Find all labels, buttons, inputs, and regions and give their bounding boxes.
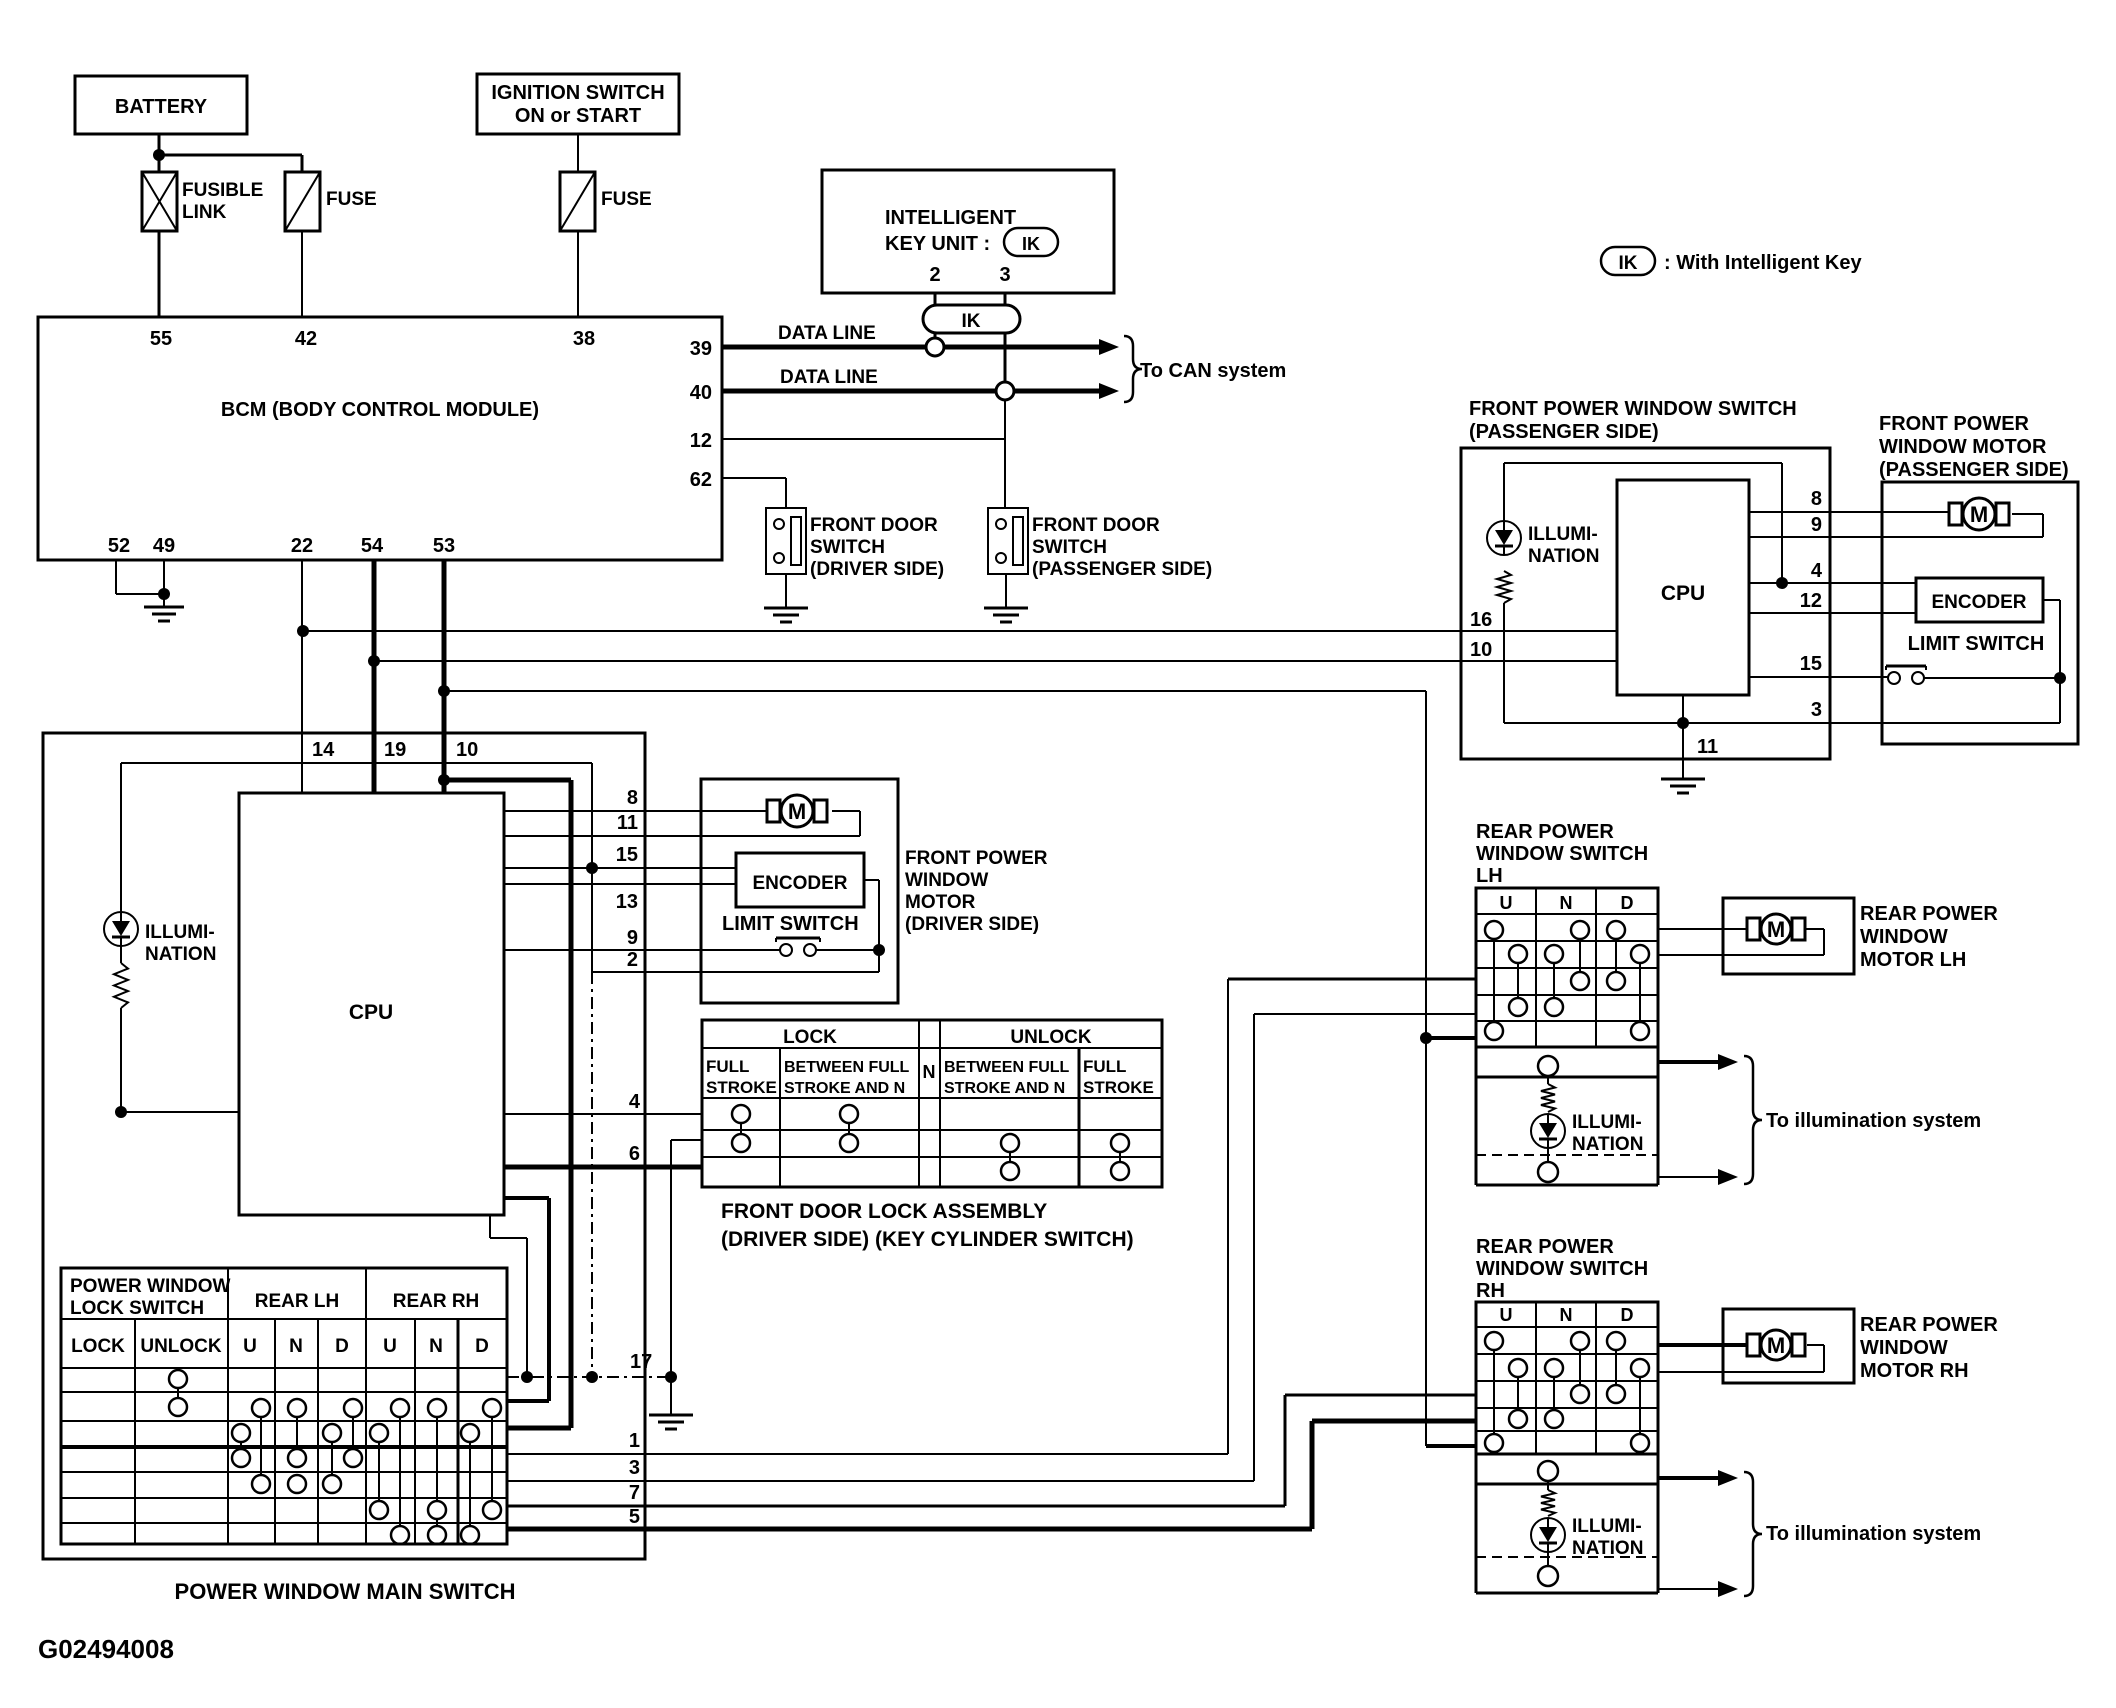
fuse F1 [285,172,377,231]
svg-text:1: 1 [629,1430,640,1452]
rear power window switch LH label [1476,821,1648,887]
rear RH contact U b [1509,1359,1527,1428]
main switch contact N RH c [428,1526,446,1544]
wire pin10 to CPU [442,733,447,793]
svg-text:ILLUMI-: ILLUMI- [1572,1112,1642,1133]
front power window motor driver side label [905,848,1048,935]
main switch contact U RH b [370,1424,388,1519]
svg-text:4: 4 [629,1091,641,1113]
svg-text:(PASSENGER SIDE): (PASSENGER SIDE) [1032,559,1212,580]
svg-text:8: 8 [1811,488,1822,510]
rear RH contact D b [1631,1359,1649,1452]
main switch contact N RH link [436,1519,438,1526]
svg-text:BETWEEN FULL: BETWEEN FULL [784,1059,910,1076]
wire x592 vertical [591,763,593,1377]
wire pin2 to data line [934,333,937,338]
cpu main switch [239,793,504,1215]
wire to illumination system RH b [1658,1581,1738,1597]
legend IK with intelligent key [1601,247,1862,275]
rear power window motor LH box [1723,898,1854,974]
main switch contact D LH b [323,1424,341,1493]
wire 53 line to rear switches [444,691,1476,1446]
svg-text:FRONT POWER WINDOW SWITCH: FRONT POWER WINDOW SWITCH [1469,398,1797,420]
wire 8 [504,810,767,812]
svg-text:42: 42 [295,328,317,350]
svg-text:NATION: NATION [1528,546,1599,567]
ground passenger switch [1661,779,1705,793]
wire 3 [507,1014,1476,1481]
node 40 circle [996,382,1014,400]
svg-text:9: 9 [1811,514,1822,536]
node 17 c [665,1371,677,1383]
wire rear LH motor feed 1 [1658,928,1747,930]
ground net 17 [649,1415,693,1429]
illumination LED passenger [1487,521,1599,567]
svg-text:MOTOR RH: MOTOR RH [1860,1360,1969,1382]
wire illumination top [121,763,592,912]
key cylinder contacts unlock full stroke [1111,1134,1129,1180]
svg-text:16: 16 [1470,609,1492,631]
wire limit switch to node [816,949,879,951]
main switch contact U LH [252,1399,270,1493]
svg-text:WINDOW: WINDOW [1860,1337,1948,1359]
rear power window switch RH table [1476,1302,1658,1454]
wire battery stem [158,134,161,172]
node limit switch passenger [2054,672,2066,684]
svg-text:N: N [1560,893,1573,913]
node 4 branch [1776,577,1788,589]
motor M rear LH [1747,914,1805,944]
svg-text:19: 19 [384,739,406,761]
svg-text:LIMIT SWITCH: LIMIT SWITCH [1908,633,2045,655]
limit switch driver [722,913,859,956]
svg-text:12: 12 [690,430,712,452]
svg-text:MOTOR LH: MOTOR LH [1860,949,1966,971]
encoder driver [736,853,864,907]
node rear LH feed [1420,1032,1432,1044]
svg-text:38: 38 [573,328,595,350]
svg-text:STROKE AND N: STROKE AND N [784,1080,905,1097]
wire 1 [507,979,1476,1454]
svg-text:KEY UNIT :: KEY UNIT : [885,233,990,255]
svg-text:(DRIVER SIDE): (DRIVER SIDE) [905,914,1039,935]
rear LH contact D b [1631,945,1649,1040]
svg-text:62: 62 [690,469,712,491]
svg-text:FULL: FULL [1083,1057,1126,1076]
svg-text:5: 5 [629,1506,640,1528]
svg-text:FRONT POWER: FRONT POWER [1879,413,2030,435]
main switch contact D LH [344,1399,362,1467]
wire IK pin2 [934,293,937,305]
wire illumination to CPU [121,1008,239,1112]
svg-text:BCM (BODY CONTROL MODULE): BCM (BODY CONTROL MODULE) [221,399,539,421]
node 54 branch [368,655,380,667]
svg-text:FUSE: FUSE [601,189,652,210]
key cylinder contacts lock between [840,1105,858,1152]
key cylinder contacts lock full stroke [732,1105,750,1152]
wire 12 [722,400,1005,508]
svg-text:LOCK SWITCH: LOCK SWITCH [70,1298,204,1319]
svg-text:53: 53 [433,535,455,557]
wire 16 line to passenger switch [303,630,1617,632]
wire pin38 [577,231,579,317]
node illumination [115,1106,127,1118]
rear RH contact N a [1545,1359,1563,1428]
wire 6 [504,1165,702,1170]
main switch contact U RH [391,1399,409,1544]
resistor rear RH illumination [1541,1490,1555,1516]
wire pin14 to CPU [301,733,303,793]
wire encoder right passenger [2043,600,2060,723]
main switch contact D RH b [461,1424,479,1544]
data line 39 [722,323,1119,355]
main switch contact unlock [169,1370,187,1416]
svg-text:(DRIVER SIDE): (DRIVER SIDE) [810,559,944,580]
svg-text:ILLUMI-: ILLUMI- [145,922,215,943]
svg-text:52: 52 [108,535,130,557]
svg-text:M: M [1767,1333,1785,1358]
illumination LED rear RH [1531,1516,1643,1559]
svg-text:REAR POWER: REAR POWER [1476,1236,1614,1258]
svg-text:DATA LINE: DATA LINE [778,323,876,344]
svg-text:MOTOR: MOTOR [905,892,976,913]
svg-text:15: 15 [616,844,638,866]
svg-text:: With Intelligent Key: : With Intelligent Key [1664,252,1862,274]
wire pin19 to CPU [372,733,377,793]
svg-text:N: N [1560,1305,1573,1325]
svg-text:(PASSENGER SIDE): (PASSENGER SIDE) [1469,421,1659,443]
svg-text:To illumination system: To illumination system [1766,1110,1981,1132]
fuse F2 [560,172,652,231]
rear power window switch LH table [1476,888,1658,1047]
svg-text:2: 2 [929,264,940,286]
svg-text:2: 2 [627,949,638,971]
wire rear RH motor feed 2 [1658,1345,1824,1372]
motor M passenger [1949,498,2009,530]
rear LH contact N b [1571,921,1589,990]
wire 4 [504,1113,702,1115]
svg-text:D: D [475,1336,489,1357]
wire IK pin3 [1004,293,1007,305]
svg-text:7: 7 [629,1482,640,1504]
rear RH contact N b [1571,1332,1589,1403]
front door switch passenger side [988,508,1212,580]
svg-text:10: 10 [456,739,478,761]
ignition switch [477,74,679,134]
intelligent key unit [822,170,1114,293]
limit switch passenger [1886,633,2060,684]
svg-text:FRONT DOOR: FRONT DOOR [810,515,938,536]
data line 40 [722,367,1119,399]
node 49 junction [158,588,170,600]
svg-text:ENCODER: ENCODER [1931,592,2026,613]
rear LH contact N a [1545,945,1563,1016]
svg-text:SWITCH: SWITCH [1032,537,1107,558]
svg-text:ON or START: ON or START [515,105,641,127]
svg-text:3: 3 [999,264,1010,286]
wire 62 [722,478,786,508]
svg-text:3: 3 [629,1457,640,1479]
power window main switch box [43,733,645,1559]
node battery junction [153,149,165,161]
main switch contact U LH b [232,1424,250,1467]
svg-text:To illumination system: To illumination system [1766,1523,1981,1545]
svg-text:FRONT POWER: FRONT POWER [905,848,1048,869]
svg-text:To CAN system: To CAN system [1140,360,1286,382]
svg-text:D: D [335,1336,349,1357]
svg-text:40: 40 [690,382,712,404]
node 22 branch [297,625,309,637]
svg-text:49: 49 [153,535,175,557]
svg-text:BETWEEN FULL: BETWEEN FULL [944,1059,1070,1076]
wire encoder to limit switch [864,880,879,950]
svg-text:FULL: FULL [706,1057,749,1076]
svg-text:FUSE: FUSE [326,189,377,210]
wire 10 line to passenger switch [374,660,1617,662]
svg-text:14: 14 [312,739,335,761]
svg-text:M: M [1767,917,1785,942]
wire pin52 [116,560,164,594]
svg-text:3: 3 [1811,699,1822,721]
wire 12 passenger [1749,612,1916,614]
svg-text:11: 11 [1697,736,1718,758]
rear power window motor RH label [1860,1314,1998,1382]
rear LH illumination top contact [1538,1056,1558,1084]
wire pin53 [442,560,447,733]
power window main switch table [61,1268,507,1544]
wire 15 [504,867,736,869]
wire to illumination system LH a [1658,1054,1738,1070]
to CAN system [1124,336,1286,402]
svg-text:UNLOCK: UNLOCK [140,1336,222,1357]
node 17 b [586,1371,598,1383]
svg-text:LINK: LINK [182,202,227,223]
wire passenger door switch to ground [1005,574,1007,608]
svg-text:DATA LINE: DATA LINE [780,367,878,388]
svg-text:U: U [1500,893,1513,913]
svg-text:STROKE: STROKE [1083,1078,1154,1097]
svg-text:ENCODER: ENCODER [752,873,847,894]
svg-text:8: 8 [627,787,638,809]
svg-text:NATION: NATION [145,944,216,965]
wire battery to fuse branch [159,155,302,172]
resistor rear LH illumination [1541,1084,1555,1112]
svg-text:REAR LH: REAR LH [255,1291,339,1312]
svg-text:IK: IK [962,311,981,332]
wire pin42 [301,231,303,317]
node limit switch junction [873,944,885,956]
key cylinder contacts unlock between [1001,1134,1019,1180]
svg-text:U: U [383,1336,397,1357]
wire 8 passenger [1749,511,1948,513]
svg-text:15: 15 [1800,653,1822,675]
encoder passenger [1916,578,2043,622]
fusible link [142,172,263,231]
svg-text:11: 11 [617,812,638,834]
svg-text:WINDOW: WINDOW [905,870,988,891]
svg-text:10: 10 [1470,639,1492,661]
svg-text:M: M [1970,502,1988,527]
net 17 dash line [507,1351,671,1377]
svg-text:IK: IK [1619,253,1638,274]
svg-text:4: 4 [1811,560,1823,582]
wire cpu ground stem [1682,723,1684,779]
wire cpu to rear RH feed [504,1198,549,1401]
svg-text:FRONT DOOR LOCK ASSEMBLY: FRONT DOOR LOCK ASSEMBLY [721,1200,1047,1223]
svg-text:NATION: NATION [1572,1134,1643,1155]
svg-text:WINDOW SWITCH: WINDOW SWITCH [1476,1258,1648,1280]
wire 9 passenger [1749,514,2043,537]
svg-text:FRONT DOOR: FRONT DOOR [1032,515,1160,536]
wire ignition stem [577,134,579,172]
rear RH contact U a [1485,1332,1503,1452]
svg-text:(PASSENGER SIDE): (PASSENGER SIDE) [1879,459,2069,481]
svg-text:POWER WINDOW MAIN SWITCH: POWER WINDOW MAIN SWITCH [175,1579,516,1604]
rear LH contact D a [1607,921,1625,990]
front power window motor driver side box [701,779,898,1003]
front door lock assembly label [721,1200,1134,1251]
cpu passenger switch [1617,480,1749,695]
wire 5 [507,1421,1476,1529]
wire rear RH motor feed 1 [1658,1343,1747,1347]
front power window motor passenger side box [1882,482,2078,744]
rear RH contact D a [1607,1332,1625,1403]
rear RH illumination section [1476,1454,1658,1593]
svg-text:POWER WINDOW: POWER WINDOW [70,1276,230,1297]
svg-text:NATION: NATION [1572,1538,1643,1559]
wire to illumination system LH b [1658,1169,1738,1185]
svg-text:G02494008: G02494008 [38,1634,174,1664]
node cpu ground junction [1677,717,1689,729]
wire 3 passenger bottom [1504,722,2060,724]
wire 2 [592,950,879,972]
svg-text:N: N [923,1062,936,1082]
wire rear LH feed [1426,1036,1476,1040]
svg-text:12: 12 [1800,590,1822,612]
node pin10 branch [438,774,450,786]
IK connector oval [923,305,1020,333]
svg-text:LH: LH [1476,865,1503,887]
wire to illumination system RH a [1658,1470,1738,1486]
wire illumination top passenger [1504,463,1782,583]
rear LH contact U a [1485,921,1503,1040]
motor M driver [767,795,827,827]
ground passenger door switch [984,608,1028,622]
main switch contact N LH c [288,1475,306,1493]
svg-text:REAR POWER: REAR POWER [1476,821,1614,843]
wire 7 [507,1395,1476,1506]
node 53 branch [438,685,450,697]
rear RH illumination bottom contact [1538,1552,1558,1586]
wire pin49 to ground [163,560,165,607]
svg-text:WINDOW SWITCH: WINDOW SWITCH [1476,843,1648,865]
wire net17 to key cylinder [671,1140,702,1415]
rear power window motor LH label [1860,903,1998,971]
svg-text:(DRIVER SIDE) (KEY CYLINDER SW: (DRIVER SIDE) (KEY CYLINDER SWITCH) [721,1228,1134,1251]
main switch contact N LH [288,1399,306,1467]
wire 13 [504,883,736,885]
wire 11 [504,811,860,836]
wire pin54 [372,560,377,733]
svg-text:N: N [289,1336,303,1357]
wire 9 [504,949,780,951]
svg-text:REAR POWER: REAR POWER [1860,903,1998,925]
wire cpu bottom stem [1682,695,1684,723]
wire 15 passenger [1749,676,1888,678]
svg-text:IGNITION SWITCH: IGNITION SWITCH [491,82,664,104]
wire 4 passenger [1749,582,1916,584]
svg-text:D: D [1621,1305,1634,1325]
svg-text:STROKE: STROKE [706,1078,777,1097]
svg-text:IK: IK [1022,234,1040,254]
to illumination system LH [1744,1056,1981,1184]
svg-text:CPU: CPU [349,1001,393,1024]
node 15 line junction [586,862,598,874]
svg-text:ILLUMI-: ILLUMI- [1572,1516,1642,1537]
svg-text:RH: RH [1476,1280,1505,1302]
svg-text:U: U [243,1336,257,1357]
ground BCM 49 [144,607,184,621]
svg-text:STROKE AND N: STROKE AND N [944,1080,1065,1097]
svg-text:INTELLIGENT: INTELLIGENT [885,207,1016,229]
svg-text:FUSIBLE: FUSIBLE [182,180,263,201]
rear power window motor RH box [1723,1309,1854,1383]
svg-text:CPU: CPU [1661,582,1705,605]
svg-text:39: 39 [690,338,712,360]
rear power window switch RH label [1476,1236,1648,1302]
svg-text:55: 55 [150,328,172,350]
BCM body control module [38,317,722,560]
main switch contact N RH [428,1399,446,1519]
svg-text:9: 9 [627,927,638,949]
svg-text:D: D [1621,893,1634,913]
svg-text:54: 54 [361,535,384,557]
wire pin3 to data line [1004,333,1007,382]
node 39 circle [926,338,944,356]
wire pin22 [301,560,303,733]
rear RH illumination top contact [1538,1461,1558,1490]
svg-text:REAR POWER: REAR POWER [1860,1314,1998,1336]
front power window motor passenger side label [1879,413,2069,481]
front door switch driver side [766,508,944,580]
battery [75,76,247,134]
node 17 a [521,1371,533,1383]
svg-text:6: 6 [629,1143,640,1165]
front door lock assembly table [702,1020,1162,1187]
illumination LED main switch [104,912,216,965]
front power window switch passenger side label [1469,398,1797,443]
to illumination system RH [1744,1472,1981,1596]
wire driver door switch to ground [785,574,787,608]
svg-text:WINDOW: WINDOW [1860,926,1948,948]
svg-text:WINDOW MOTOR: WINDOW MOTOR [1879,436,2047,458]
svg-text:U: U [1500,1305,1513,1325]
front power window switch passenger side box [1461,448,1830,759]
rear LH contact U b [1509,945,1527,1016]
svg-text:REAR RH: REAR RH [393,1291,480,1312]
wire cpu to net 17 [490,1215,527,1377]
svg-text:LIMIT SWITCH: LIMIT SWITCH [722,913,859,935]
wire pin55 [158,231,161,317]
svg-text:17: 17 [630,1351,652,1373]
rear LH illumination bottom contact [1538,1148,1558,1182]
svg-text:BATTERY: BATTERY [115,96,208,118]
wire rear LH motor feed 2 [1658,929,1824,955]
resistor illumination main [114,946,128,1008]
svg-text:LOCK: LOCK [783,1027,837,1048]
main switch contact D RH [483,1399,501,1519]
svg-text:ILLUMI-: ILLUMI- [1528,524,1598,545]
